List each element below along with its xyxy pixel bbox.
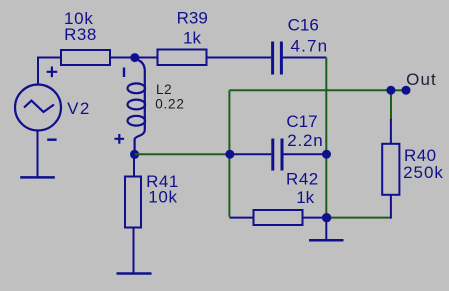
inductor L2 <box>128 59 146 150</box>
resistor R39 <box>158 50 207 66</box>
resistor R40 <box>382 144 399 195</box>
node C17 right junction <box>322 150 331 159</box>
svg-text:4.7n: 4.7n <box>290 37 328 56</box>
wire L2 bottom to R41 <box>133 154 135 176</box>
svg-text:2.2n: 2.2n <box>287 131 323 150</box>
wire green L2 bottom to left rail <box>135 153 230 155</box>
wire green R42 to R40 bottom <box>326 217 391 219</box>
wire R38 to R39 <box>110 57 158 59</box>
ground (mid) <box>309 239 344 242</box>
wire C17 left <box>229 153 271 155</box>
node Out terminal <box>402 86 411 95</box>
svg-text:R38: R38 <box>64 25 97 44</box>
resistor R41 <box>125 177 141 228</box>
wire V2 top to R38 <box>38 58 61 86</box>
svg-text:C16: C16 <box>288 16 319 35</box>
svg-text:R39: R39 <box>177 8 208 27</box>
node Out junction <box>386 86 395 95</box>
wire V2 bottom <box>37 131 39 178</box>
wire R42 left <box>229 217 253 219</box>
node R42 right junction <box>322 213 331 222</box>
resistor R42 <box>254 210 303 225</box>
svg-text:1k: 1k <box>296 188 314 207</box>
svg-text:250k: 250k <box>403 163 444 182</box>
voltage source V2 <box>15 85 61 131</box>
wire C16 right <box>283 57 327 59</box>
svg-text:1k: 1k <box>183 29 201 48</box>
capacitor C17 <box>273 139 282 171</box>
capacitor C16 <box>273 42 282 75</box>
wire R41 bottom <box>133 228 135 274</box>
wire green top horizontal to Out <box>229 89 391 91</box>
svg-text:0.22: 0.22 <box>155 96 184 111</box>
wire R42 right <box>303 217 327 219</box>
wire C17 right <box>284 153 327 155</box>
wire green left rail vertical <box>228 90 230 217</box>
node junction top <box>130 53 139 62</box>
svg-text:C17: C17 <box>286 112 317 131</box>
svg-text:10k: 10k <box>148 188 178 207</box>
svg-text:R42: R42 <box>286 170 319 189</box>
V2 sine symbol <box>24 101 54 112</box>
svg-text:L2: L2 <box>156 82 172 97</box>
wire ground stub mid <box>325 218 327 240</box>
resistor R38 <box>61 50 110 65</box>
wire blue to R40 top <box>390 119 392 144</box>
V2 minus sign <box>47 138 56 140</box>
wire green Out link <box>391 89 406 91</box>
wire R40 bottom <box>390 195 392 219</box>
ground (V2) <box>20 176 55 179</box>
svg-text:Out: Out <box>406 70 437 89</box>
node C17 left junction <box>225 150 234 159</box>
V2 plus sign <box>47 67 58 78</box>
ground (R41) <box>117 272 152 275</box>
L2 minus mark (rotated) <box>123 68 125 78</box>
svg-text:V2: V2 <box>67 99 91 118</box>
wire green below Out node <box>390 90 392 120</box>
wire green C16 drop vertical <box>325 58 327 218</box>
node junction inductor bottom <box>130 150 139 159</box>
wire R39 to C16 <box>207 57 272 59</box>
L2 plus mark <box>115 134 125 144</box>
